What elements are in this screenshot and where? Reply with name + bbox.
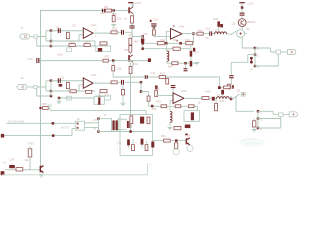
wire rail y63 [167,61,190,63]
capacitor C17 solid [190,51,193,57]
svg-text:C17: C17 [194,51,199,55]
wire U3 out [182,33,197,35]
wire column seg2 [131,29,133,39]
capacitor C7 [130,25,135,26]
junction blob mid [148,58,151,62]
transformer T1 [112,118,119,131]
transistor Q4 mark [186,138,190,145]
ground right of F1 [195,62,200,64]
resistor R37 [224,86,231,89]
resistor R38 [155,91,158,97]
box PSU outline [120,115,152,156]
resistor R57 [166,79,169,84]
capacitor C35 solid [220,24,223,27]
wire to U3 -in [154,26,171,36]
wire to J4 plug [281,51,288,53]
transistor Q1 [128,7,130,13]
capacitor C29 solid [185,125,191,129]
wire down x141 [140,82,142,91]
resistor R16 [69,44,75,47]
wire feedback loop rect [184,106,200,121]
wire c15 stub [142,42,144,45]
ground under R10 [111,24,116,26]
capacitor C8 [58,28,59,33]
node E3 [141,42,144,45]
wire T1 secondary [118,119,127,129]
wire R43 stub [215,99,217,104]
wire VCC stub [131,3,133,6]
wire R57 stub [166,77,168,79]
power flag +24V center [128,2,133,3]
node N1 [97,117,100,120]
wire J5 pin column [257,111,259,128]
node J0 blob [151,105,153,108]
resistor R26 [70,90,76,93]
svg-text:R21: R21 [105,54,110,58]
svg-text:R13: R13 [124,49,129,52]
diode pair D1 D2 [127,121,129,128]
svg-text:R39: R39 [156,99,161,103]
wire R54 to U4 rail [149,101,152,106]
resistor R52 [16,168,23,171]
svg-text:C14: C14 [153,18,159,22]
connector J2 [17,85,27,90]
wire bias n-path [231,55,255,76]
node H2 [254,53,257,56]
node D1 [153,26,156,29]
wire J2 tail [27,86,33,88]
wire seg3 [203,33,209,35]
svg-text:J1: J1 [21,26,25,30]
junction blob I [218,86,221,89]
wire mid rail y60 right [108,60,150,62]
wire U2 loop [95,95,110,100]
pin header rect J4 [276,50,281,54]
wire U1 -in [51,35,95,41]
wire L2 L3 to J5 pin [258,117,281,128]
node U3 fb [192,32,195,35]
resistor R50 [145,145,148,151]
node C1 [50,79,53,82]
svg-text:0V: 0V [93,127,96,130]
wire U2 -in [51,85,95,91]
node C3 [50,95,53,98]
inductor L1 [167,51,169,61]
wire J4 pin column [254,48,256,66]
wire R25 stubs [67,81,69,91]
capacitor C32 solid [141,139,144,145]
wire T1 primary [99,119,112,132]
pin header rect J5 [279,113,284,117]
wire column seg4 long [130,74,132,116]
resistor R11 [131,16,134,23]
wire R56 gnd stub [253,127,255,130]
wire Q2 emitter [130,62,133,67]
wire column seg3 [129,52,131,55]
capacitor C25 solid [221,90,224,95]
switch SW2 diagonal [232,94,239,99]
inductor L2 [215,32,227,34]
resistor R42 [202,97,209,100]
wire rail y48 [143,43,190,48]
wire U1 +in [51,30,83,32]
node M1 [52,122,55,125]
wire seg [117,31,121,33]
capacitor C26 [171,85,176,86]
wire U3 +in [166,31,170,43]
connector box J6 [75,121,84,130]
svg-text:J4: J4 [250,68,253,72]
wire C26 stub [172,88,174,93]
wire rail y43 + feedback up [143,34,194,44]
wire R35 down [218,27,220,34]
flag box under R15 [66,48,71,52]
wire to ground F [192,61,197,64]
wire column seg1 [131,23,133,25]
wire to J5 [231,96,254,111]
capacitor C22 [229,75,233,76]
svg-text:100n: 100n [57,53,63,57]
op-amp U2A [83,78,93,88]
wire Q1 collector/emitter [132,3,134,15]
connector J5 [289,112,297,117]
node P2 [129,130,132,133]
svg-text:C11: C11 [151,71,156,75]
wire seg9 [221,86,224,88]
pad P2 [1,171,5,175]
circle G2 [187,145,193,151]
resistor R39 [161,105,167,108]
net tick D [150,20,152,22]
svg-text:U3A: U3A [179,25,185,29]
capacitor C30 solid [140,117,144,124]
resistor R10 [112,16,115,22]
wire psu mid [99,124,153,132]
wire trimmer top stub [98,93,100,97]
node top rail junction [112,9,115,12]
node L1n [257,110,260,113]
wire rail y77 [113,76,219,78]
inductor L4 [170,111,172,122]
node H1 [254,47,257,50]
capacitor C18 solid [190,61,193,67]
svg-text:MUTE: MUTE [61,126,69,130]
wire J2 fork [37,81,51,96]
wire seg8 [230,78,232,84]
capacitor C20 [240,13,245,14]
wire U1 loop [95,45,110,52]
connector J1 [20,34,30,39]
svg-text:R26: R26 [70,91,75,95]
svg-text:R23: R23 [160,72,165,76]
switch SW1 diagonal [230,31,237,35]
resistor R19 [100,42,107,45]
node A1 [50,29,53,32]
svg-text:R33: R33 [185,38,190,42]
resistor R44 solid [191,112,194,120]
svg-text:RV1: RV1 [105,94,110,97]
capacitor C31 solid [127,139,130,145]
node U2o2 [140,90,143,93]
capacitor C39 solid [193,48,195,52]
resistor R33 [186,42,193,45]
node A3 [50,45,53,48]
op-amp U4A [173,93,184,104]
wire branch down [113,11,115,16]
resistor R58 [175,143,178,149]
resistor R21 [103,59,108,62]
svg-text:BD139: BD139 [247,20,255,24]
svg-text:VREF: VREF [27,141,34,145]
transistor Q5 mark [40,166,43,173]
capacitor C37 solid [98,48,102,52]
wire seg6 [241,9,243,13]
svg-text:C8: C8 [72,24,76,28]
wire cap stub [185,63,187,68]
varistor RV2 [250,57,252,64]
wire seg5 [227,33,230,35]
resistor R30 [152,30,155,35]
node A2 [50,40,53,43]
resistor R25 [66,82,69,88]
trimmer box RV1 [94,97,104,105]
wire to R54 [141,92,149,97]
svg-text:U2A: U2A [91,73,97,77]
svg-text:C19: C19 [205,27,210,31]
wire psu out [152,140,163,142]
resistor R41 [188,105,194,108]
resistor R53 [28,149,32,157]
svg-text:C15: C15 [143,33,148,36]
wire flag stub [241,3,243,6]
wire seg10 [222,94,224,96]
svg-text:1k: 1k [124,17,128,21]
wire U1 feedback row [51,41,95,46]
svg-text:22k: 22k [117,66,122,70]
wire U2 +in [51,80,83,82]
capacitor C33 solid [151,142,154,148]
resistor R15 [66,32,69,38]
resistor R56 [253,121,256,127]
resistor R27 [86,90,92,93]
capacitor C5 [102,9,103,13]
wire J6 to T1 [84,119,98,132]
wire to coil1 [165,43,167,51]
wire U4 out [184,97,202,99]
wire cap branch x123 [122,85,124,90]
wire H1 to J4 [255,48,276,52]
svg-text:10k: 10k [24,158,29,162]
wire trimmer to ground [59,97,94,99]
wire L1 to J5 [258,111,279,114]
wire to column [125,31,132,33]
wire psu stubs [129,139,147,148]
wire fb to -in [170,101,173,105]
svg-text:C12: C12 [60,76,65,79]
capacitor C13 [121,80,122,85]
capacitor C14 [151,23,156,24]
svg-text:R31: R31 [161,38,166,42]
capacitor C24 solid [232,85,234,88]
wire J1 fork [37,31,51,46]
svg-text:10k: 10k [117,16,122,20]
transistor Q3 circle [238,19,246,27]
resistor R49 [132,145,135,151]
svg-text:IN: IN [3,160,6,164]
resistor R36 [197,32,203,35]
node F1 [184,62,187,64]
svg-text:+24V: +24V [134,1,141,5]
svg-text:R32: R32 [173,38,178,42]
svg-text:+12V: +12V [247,1,254,5]
wire L4 stubs [169,108,171,127]
wire seg11 [209,97,212,99]
resistor R31 [157,42,164,45]
svg-text:+: + [149,162,151,166]
node E0 [141,35,144,38]
wire U4 feedback rail [153,105,197,107]
resistor R35 solid [217,21,220,26]
wire U2 out seg [125,81,141,83]
wire seg12 [215,97,217,99]
resistor R51 [164,139,171,142]
wire shutdown [7,122,76,124]
node C2 [50,90,53,93]
node E1 [165,42,168,45]
resistor R54 [147,96,150,101]
chassis marks [48,104,53,107]
wire J1 tail [30,36,33,38]
svg-text:R43: R43 [220,100,225,103]
faint artifact [239,138,265,147]
wire branch B2 [112,71,114,77]
resistor R24 solid [59,84,63,87]
flag box under R25 [66,96,71,100]
power flag +12V right [239,2,245,3]
wire seg13 [170,140,186,142]
resistor R23 [159,76,165,79]
ground left of trimmer [57,101,62,103]
svg-text:R34: R34 [168,65,173,69]
capacitor C11 [145,75,146,79]
svg-text:J2: J2 [21,76,25,80]
node M2 [52,134,55,137]
svg-text:R38: R38 [155,87,160,91]
node Q0 [175,139,178,142]
resistor R48 [147,117,150,124]
ground under R55 [121,103,126,105]
svg-text:R20: R20 [112,27,118,31]
svg-text:R17: R17 [85,41,90,45]
resistor R17 [84,44,90,47]
svg-text:SP: SP [205,37,209,40]
wire seg2 [117,81,121,83]
motor/jack M1 circle [237,30,245,38]
wire U2 out [93,81,111,84]
wire node column A [50,31,52,46]
wire U1 out [93,31,111,34]
wire top rail [40,10,128,12]
wire rail y77 down [219,77,221,86]
wire pad P1 to J6 [4,129,75,136]
node M0 [39,107,41,109]
wire R15 stubs [67,31,69,41]
ground under R56 [252,130,257,132]
svg-text:R40: R40 [152,108,157,111]
svg-text:Q3: Q3 [232,22,236,26]
wire H3 to J4 pin [255,54,278,66]
ground bottom [39,175,44,177]
node B1 [112,59,115,62]
resistor R32 [173,47,180,50]
node E2 [179,42,182,45]
resistor R46 [43,107,49,110]
svg-text:R14: R14 [134,63,139,66]
power pin marks U3 [173,25,175,26]
node U2o1 [140,81,143,84]
wire R56 stub [253,119,255,121]
net tick Q4 [185,134,188,136]
resistor R9 [105,9,111,12]
wire U4 +in [156,95,173,98]
inductor L3 [217,97,230,99]
capacitor C34 solid [9,165,15,168]
capacitor C16 [184,68,188,69]
wire bottom long [2,164,148,175]
resistor C23 box [227,84,230,89]
resistor R20 [111,31,117,34]
node N2 [97,130,100,133]
resistor R13 [129,46,132,53]
node G1 [241,6,244,9]
wire branch B [112,61,114,66]
capacitor C15 solid [141,39,144,43]
wire seg7 [241,16,243,19]
svg-text:12V: 12V [93,119,98,122]
jack M2 box [241,92,245,96]
op-amp U1A [83,28,93,38]
svg-text:R35: R35 [213,17,219,21]
capacitor C9 [121,30,122,35]
node L2n [257,117,260,120]
svg-text:C10: C10 [28,57,34,61]
capacitor C36 solid [155,86,158,90]
svg-text:R42: R42 [206,90,211,94]
svg-text:100n: 100n [100,11,106,15]
svg-text:U4A: U4A [181,89,187,93]
resistor R14 [129,66,132,73]
node E5 [141,47,144,50]
wire to J5 plug [283,114,289,116]
capacitor C10 series on left vertical [36,58,37,63]
wire Q3 to M1 [241,27,243,30]
transistor Q2 [128,55,130,62]
wire between C17 C18 [190,43,192,61]
svg-text:C34: C34 [9,158,15,162]
ground under L4 [168,127,173,129]
svg-text:R46: R46 [42,102,47,106]
wire mid rail y60 [39,60,103,62]
svg-text:4k7: 4k7 [134,40,139,44]
wire circle stubs [176,142,190,149]
wire stub M [42,107,43,109]
svg-text:R16: R16 [70,41,75,45]
resistor R34 [172,62,178,65]
connector J4 [288,50,296,55]
capacitor C27 solid [212,97,215,101]
wire cap branch [132,37,143,39]
wire rail y110 [48,108,146,115]
